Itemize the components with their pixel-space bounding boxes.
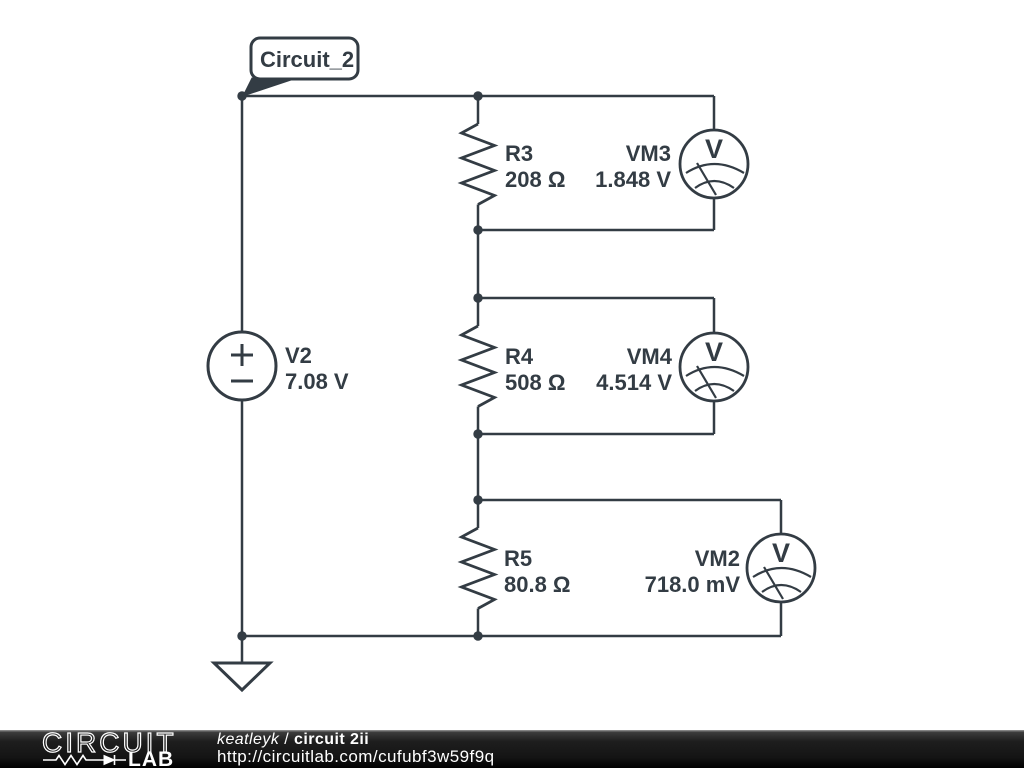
svg-text:1.848 V: 1.848 V <box>595 167 671 192</box>
svg-text:V: V <box>705 134 723 164</box>
svg-text:keatleyk / circuit 2ii: keatleyk / circuit 2ii <box>217 731 369 748</box>
svg-text:LAB: LAB <box>128 748 174 768</box>
svg-text:508 Ω: 508 Ω <box>505 370 565 395</box>
svg-text:7.08 V: 7.08 V <box>285 369 349 394</box>
svg-text:V: V <box>705 337 723 367</box>
svg-text:4.514 V: 4.514 V <box>596 370 672 395</box>
svg-text:V2: V2 <box>285 343 312 368</box>
svg-text:R4: R4 <box>505 344 534 369</box>
svg-text:208 Ω: 208 Ω <box>505 167 565 192</box>
svg-text:http://circuitlab.com/cufubf3w: http://circuitlab.com/cufubf3w59f9q <box>217 747 495 766</box>
svg-text:R3: R3 <box>505 141 533 166</box>
svg-text:R5: R5 <box>504 546 532 571</box>
svg-text:718.0 mV: 718.0 mV <box>645 572 741 597</box>
svg-text:VM3: VM3 <box>626 141 671 166</box>
svg-text:Circuit_2: Circuit_2 <box>260 47 354 72</box>
svg-text:80.8 Ω: 80.8 Ω <box>504 572 571 597</box>
svg-text:VM4: VM4 <box>627 344 673 369</box>
svg-text:VM2: VM2 <box>695 546 740 571</box>
svg-text:V: V <box>772 538 790 568</box>
